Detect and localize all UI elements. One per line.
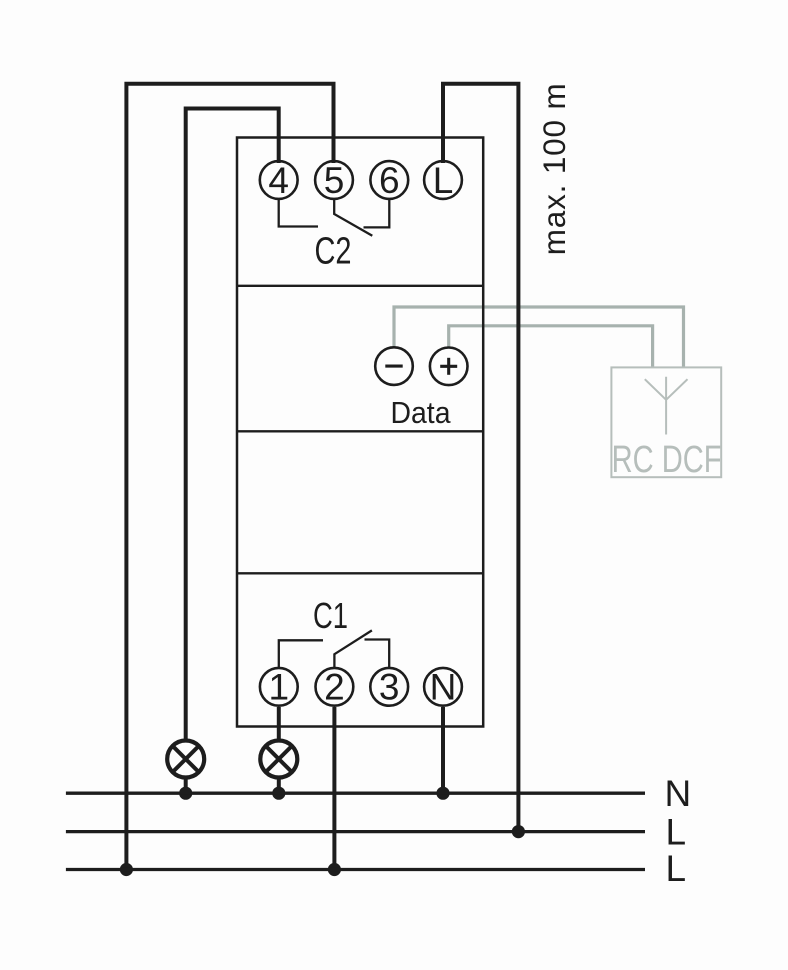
svg-text:3: 3 xyxy=(379,667,400,708)
wire: terminal 4 loop to lamp E1 xyxy=(186,109,279,742)
svg-text:RC DCF: RC DCF xyxy=(612,439,722,481)
middle L bus line xyxy=(66,830,645,833)
wire: Data minus to RC DCF (grey) xyxy=(394,307,684,368)
device section divider 3 xyxy=(237,572,483,574)
device section divider 2 xyxy=(237,430,483,432)
lower L bus line xyxy=(66,868,645,871)
junction dot on N bus (terminal N) xyxy=(436,787,449,800)
device outline xyxy=(237,138,483,727)
svg-text:L: L xyxy=(666,848,687,889)
lamp E1 xyxy=(167,741,204,778)
terminal 5 xyxy=(315,160,353,201)
wire: terminal 5 loop to lower L bus xyxy=(126,84,333,870)
svg-text:L: L xyxy=(666,811,687,852)
switch C2 (changeover contact) xyxy=(279,200,390,236)
N bus line xyxy=(66,792,645,795)
terminal L xyxy=(424,160,462,201)
svg-text:L: L xyxy=(433,160,454,201)
svg-text:max. 100 m: max. 100 m xyxy=(536,83,572,255)
svg-text:N: N xyxy=(665,773,692,814)
terminal N xyxy=(424,667,462,708)
terminal 6 xyxy=(370,160,408,201)
wire: lamp E2 to N bus xyxy=(277,777,281,793)
svg-text:Data: Data xyxy=(391,395,452,430)
wire: Data plus to RC DCF (grey) xyxy=(449,326,653,368)
svg-text:2: 2 xyxy=(324,667,345,708)
junction dot on N bus (lamp E2) xyxy=(272,787,285,800)
wire: terminal 2 to lower L bus xyxy=(332,707,336,870)
wire: lamp E1 to N bus xyxy=(184,777,188,793)
terminal 2 xyxy=(316,667,354,708)
junction dot on middle L bus xyxy=(512,825,525,838)
wire: terminal L loop to middle L bus xyxy=(443,84,518,832)
svg-text:N: N xyxy=(430,667,457,708)
svg-text:6: 6 xyxy=(379,160,400,201)
wire: terminal 1 to lamp E2 xyxy=(277,707,281,741)
terminal 4 xyxy=(260,160,298,201)
junction dot on lower L bus (left wire) xyxy=(120,863,133,876)
wire: terminal N to N bus xyxy=(441,707,445,793)
antenna xyxy=(645,377,688,435)
lamp E2 xyxy=(260,741,297,778)
device section divider 1 xyxy=(237,285,483,287)
terminal Data plus xyxy=(430,348,468,386)
svg-text:C2: C2 xyxy=(315,231,352,273)
RC DCF receiver box xyxy=(611,367,721,477)
svg-text:4: 4 xyxy=(268,160,289,201)
svg-text:C1: C1 xyxy=(313,595,348,636)
junction dot on lower L bus (terminal 2) xyxy=(328,863,341,876)
switch C1 (changeover contact) xyxy=(279,630,389,667)
svg-text:1: 1 xyxy=(269,667,290,708)
junction dot on N bus (lamp E1) xyxy=(179,787,192,800)
terminal Data minus xyxy=(375,347,413,385)
terminal 1 xyxy=(260,667,298,708)
terminal 3 xyxy=(370,667,408,708)
svg-text:5: 5 xyxy=(324,160,345,201)
